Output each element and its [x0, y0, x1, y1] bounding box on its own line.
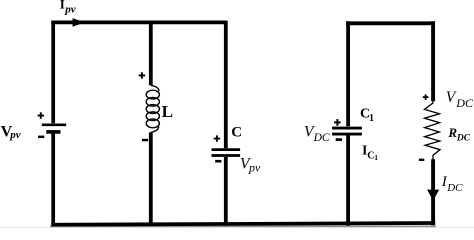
node arrow Ipv [73, 18, 85, 27]
wire: C1 rail lower [346, 135, 350, 226]
svg-text:1: 1 [369, 113, 374, 124]
capacitor C minus [215, 160, 221, 163]
wire: R rail upper [431, 21, 435, 101]
source V_pv battery plus [38, 112, 44, 118]
svg-text:DC: DC [313, 132, 330, 144]
capacitor C plus [214, 135, 220, 141]
inductor L minus [142, 139, 148, 142]
svg-text:L: L [162, 102, 173, 121]
svg-text:pv: pv [9, 129, 21, 141]
node arrow I_DC [427, 190, 439, 201]
capacitor C top plate [212, 148, 241, 151]
wire: right rail lower [224, 157, 228, 226]
svg-text:DC: DC [446, 182, 463, 194]
inductor L coil [146, 85, 159, 132]
source V_pv battery minus [38, 136, 44, 139]
inductor L plus [139, 72, 145, 78]
capacitor C1 plus [334, 119, 341, 126]
svg-text:1: 1 [374, 153, 378, 162]
svg-text:I: I [60, 0, 65, 11]
resistor R_DC plus [423, 94, 429, 100]
svg-text:V: V [446, 89, 457, 106]
wire: top wire right circuit [346, 21, 435, 25]
wire: left rail upper [51, 21, 55, 124]
wire: bottom shadow [50, 226, 436, 228]
wire: right rail upper (cap C branch) [224, 21, 228, 149]
wire: R rail lower with I_DC arrow [431, 159, 435, 225]
svg-text:C: C [231, 125, 242, 141]
capacitor C bottom plate [212, 154, 241, 157]
svg-text:pv: pv [64, 4, 76, 16]
wire: C1 rail upper [346, 21, 350, 126]
svg-text:R: R [447, 125, 457, 140]
source V_pv battery long plate [42, 123, 66, 126]
resistor R_DC minus [419, 159, 424, 161]
resistor R_DC zigzag [424, 101, 440, 159]
wire: top wire left circuit [51, 20, 226, 24]
capacitor C1 top plate [332, 127, 362, 130]
wire: bottom wire (shared) [51, 223, 435, 225]
capacitor C1 minus [336, 138, 342, 141]
source V_pv battery short plate [46, 130, 60, 134]
capacitor C1 bottom plate [332, 133, 362, 136]
svg-text:DC: DC [456, 134, 471, 144]
wire: middle branch upper [149, 21, 153, 86]
wire: middle branch lower [149, 132, 153, 225]
svg-text:DC: DC [455, 96, 474, 110]
wire: left rail lower [51, 134, 55, 226]
svg-text:pv: pv [248, 161, 261, 175]
